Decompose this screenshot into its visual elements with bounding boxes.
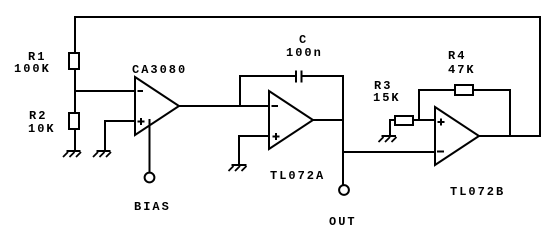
wire non-inverting input to ground vertical: [104, 120, 106, 151]
wire R4 right: [472, 89, 511, 91]
svg-text:15K: 15K: [373, 91, 401, 105]
svg-text:R4: R4: [448, 49, 466, 63]
wire top feedback rail: [74, 16, 541, 18]
ground at CA3080 non-inverting input: [93, 151, 111, 157]
wire right feedback vertical: [539, 16, 541, 137]
resistor R3: [395, 116, 413, 125]
wire CA3080 output to TL072A inverting input: [179, 105, 270, 107]
svg-text:CA3080: CA3080: [132, 63, 187, 77]
op-amp U2A TL072A triangle: [269, 91, 313, 149]
minus marker CA3080: [138, 90, 144, 92]
svg-text:OUT: OUT: [329, 215, 357, 229]
terminal circle OUT: [339, 185, 349, 195]
plus marker CA3080: [138, 118, 145, 125]
op-amp U2B TL072B triangle: [435, 107, 479, 165]
wire CA3080 non-inverting input: [104, 120, 136, 122]
wire R3 left to ground: [389, 119, 396, 121]
resistor R2: [69, 113, 79, 129]
plus marker TL072B: [438, 119, 445, 126]
wire capacitor right to output node: [302, 75, 344, 77]
wire R3 to TL072B non-inverting input: [412, 119, 436, 121]
plus marker TL072A: [273, 133, 280, 140]
capacitor C plates: [296, 71, 302, 83]
svg-text:10K: 10K: [28, 122, 56, 136]
svg-text:BIAS: BIAS: [134, 200, 171, 214]
wire feedback junction vertical: [239, 75, 241, 107]
resistor R1: [69, 53, 79, 69]
wire feedback to capacitor left: [239, 75, 295, 77]
resistor R4: [455, 85, 473, 95]
wire TL072A non-inverting input to ground vertical: [238, 135, 240, 165]
ground at R3: [379, 136, 397, 142]
svg-text:TL072A: TL072A: [270, 169, 325, 183]
wire R3 ground vertical: [389, 119, 391, 136]
wire R1 to R2 vertical: [74, 69, 76, 114]
wire node to CA3080 inverting input: [74, 90, 136, 92]
minus marker TL072A: [272, 105, 279, 107]
terminal circle BIAS: [145, 173, 155, 183]
wire R4 left vertical to non-inverting input: [418, 89, 420, 121]
svg-text:47K: 47K: [448, 63, 476, 77]
svg-text:C: C: [299, 33, 308, 47]
ground at TL072A non-inverting input: [229, 165, 247, 171]
minus marker TL072B: [437, 151, 444, 153]
svg-text:100n: 100n: [286, 46, 323, 60]
wire top-left vertical to R1: [74, 16, 76, 53]
op-amp U1 CA3080 triangle: [135, 77, 179, 135]
wire R4 left: [418, 89, 456, 91]
wire R4 right vertical to output: [509, 89, 511, 137]
wire TL072A output: [313, 119, 344, 121]
wire TL072B output: [479, 135, 541, 137]
svg-text:R2: R2: [29, 109, 47, 123]
pin BIAS of CA3080: [149, 119, 151, 172]
wire output node vertical: [342, 75, 344, 185]
wire R2 to ground: [74, 129, 76, 151]
wire output node to TL072B inverting input: [343, 151, 436, 153]
wire TL072A non-inverting input: [238, 135, 270, 137]
svg-text:100K: 100K: [14, 62, 51, 76]
ground below R2: [63, 151, 81, 157]
svg-text:TL072B: TL072B: [450, 185, 505, 199]
